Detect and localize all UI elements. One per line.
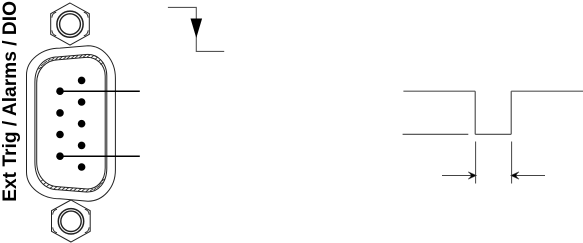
callout wire from lower pin [60,155,140,157]
waveform high level (left) [403,90,475,92]
dimension arrow (left, pointing right) [442,172,476,179]
waveform low pulse segment [475,133,511,135]
label Ext Trig / Alarms / DIO [0,1,21,202]
insert D-opening inner line [37,57,106,189]
dimension arrow (right, pointing left) [511,172,545,179]
callout wire from upper pin [60,90,140,92]
extension line (right) [511,142,513,184]
waveform low level (left) [403,133,469,135]
hatching ticks on D-opening top edge [39,55,104,69]
hatching ticks on D-opening bottom edge [40,179,104,192]
connector shell outer outline [27,46,116,202]
jack screw hex nut (bottom) [52,200,91,242]
waveform high level (right) [511,90,583,92]
waveform falling edge [474,91,476,134]
insert D-opening outer line [35,54,107,192]
falling edge trigger symbol [168,7,224,51]
waveform rising edge [510,91,512,134]
svg-text:Ext Trig / Alarms / DIO: Ext Trig / Alarms / DIO [0,1,21,202]
pins (right column, 5 pins) [78,77,86,171]
pins (left column, 4 pins) [56,87,64,160]
extension line (left) [475,142,477,184]
jack screw hex nut (top) [51,3,90,45]
